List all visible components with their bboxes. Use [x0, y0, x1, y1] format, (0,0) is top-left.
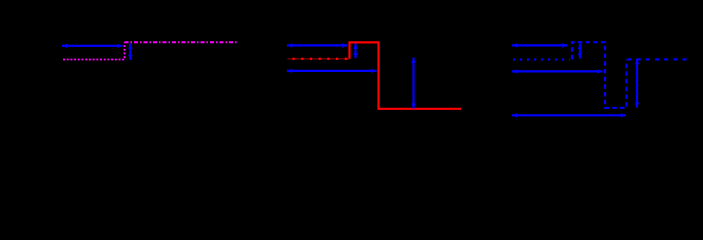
panel 2 lower horizontal measure arrow: [287, 70, 377, 72]
panel 3 bottom horizontal measure arrow: [512, 114, 626, 116]
panel 3 middle horizontal measure arrow: [512, 70, 603, 72]
panel 2 baseline connector (dark red solid): [288, 58, 350, 60]
panel 1 horizontal measure arrow: [62, 45, 123, 47]
panel 3 large vertical measure arrow: [636, 59, 638, 108]
panel 3 baseline (blue dotted): [513, 58, 570, 60]
panel 2 top horizontal measure arrow: [287, 44, 347, 46]
panel 1 vertical measure arrow: [129, 44, 131, 61]
panel 3 recovered level line (blue dashed): [628, 58, 687, 60]
panel 1 signal baseline (magenta dashed) with step up: [63, 42, 125, 59]
panel 3 pulse curve (blue dashed): [572, 42, 627, 108]
panel 2 large vertical measure arrow: [412, 58, 414, 109]
panel 2 baseline dots (red dotted): [293, 58, 350, 60]
panel 3 small vertical measure arrow: [579, 44, 581, 59]
panel 2 pulse curve (red solid): [350, 42, 462, 108]
panel 3 top horizontal measure arrow: [512, 44, 568, 46]
panel 1 upper level line (magenta dash-dot): [125, 41, 238, 43]
panel 2 small vertical measure arrow: [354, 44, 356, 59]
